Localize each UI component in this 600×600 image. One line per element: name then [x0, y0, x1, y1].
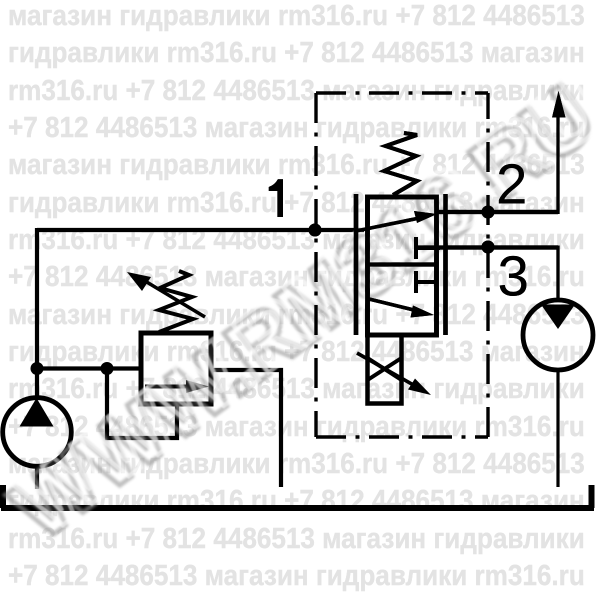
main valve U1 right outer bar (overlay)	[443, 194, 448, 335]
wire: horizontal to relief valve	[37, 366, 141, 370]
motor M1 triangle	[541, 305, 575, 330]
restrictor R1 adjustment arrow	[357, 353, 417, 387]
wire: line 1 horizontal	[37, 228, 364, 232]
main valve U1 left outer bar	[354, 194, 359, 335]
pump P1 triangle	[20, 398, 54, 427]
pump P1 circle	[3, 398, 72, 467]
main valve U1 closed port T upper (overlay)	[416, 237, 440, 259]
relief valve V1 internal arrow	[145, 385, 190, 389]
wire: relief valve outlet to tank	[211, 370, 281, 487]
relief valve V1 adjustment arrow	[140, 278, 205, 317]
main valve U1 closed port T lower (overlay)	[416, 271, 435, 293]
wire: port 2 line (overlay)	[437, 210, 558, 214]
wire: port 3 line (overlay)	[416, 245, 558, 249]
node: junction dot port 3 (overlay)	[482, 241, 495, 254]
main valve U1 body (overlay)	[368, 197, 437, 335]
node: junction dot port 2	[482, 206, 495, 219]
node: junction dot pilot tap	[101, 362, 114, 375]
tiled watermark rows	[8, 0, 585, 33]
relief valve V1 spring	[159, 271, 193, 332]
main valve U1 section divider (overlay)	[366, 262, 437, 266]
wire: port 2 line	[437, 210, 558, 214]
main valve U1 top diagonal arrow (overlay)	[356, 218, 422, 232]
main valve U1 section divider	[366, 262, 437, 266]
wire: pump suction stub	[35, 466, 39, 489]
motor M1 circle	[523, 300, 593, 370]
node: junction dot port 2 (overlay)	[482, 206, 495, 219]
main valve U1 top diagonal arrow	[356, 218, 422, 232]
wire: port 3 line	[416, 245, 558, 249]
main valve U1 bottom diagonal arrow (overlay)	[369, 299, 420, 312]
arrow: port 2 flow up	[552, 91, 566, 118]
tank T1	[1, 485, 594, 508]
main valve U1 closed port T lower	[416, 271, 435, 293]
node: junction dot port 1 (overlay)	[309, 224, 322, 237]
label 1	[269, 179, 283, 217]
relief valve V1 body	[141, 333, 211, 404]
wire: motor return to tank	[556, 370, 559, 487]
node: junction dot port 3	[482, 241, 495, 254]
arrow: port 2 flow up (overlay)	[552, 91, 566, 118]
main valve U1 spring	[384, 133, 417, 195]
restrictor R1 body	[368, 335, 402, 404]
main valve U1 left outer bar (overlay)	[354, 194, 359, 335]
main valve U1 right outer bar	[443, 194, 448, 335]
dash-dot enclosure border	[316, 93, 488, 437]
node: junction dot pump riser	[31, 362, 44, 375]
label 1 (overlay)	[269, 179, 283, 217]
node: junction dot port 1	[309, 224, 322, 237]
main valve U1 bottom diagonal arrow	[369, 299, 420, 312]
main valve U1 closed port T upper	[416, 237, 440, 259]
wire: relief valve drain loop	[107, 368, 177, 438]
main valve U1 spring (overlay)	[384, 133, 417, 195]
restrictor R1 X cross	[368, 358, 402, 380]
wire: left riser from line1 corner to pump	[35, 228, 39, 398]
wire: port 2 riser (overlay)	[556, 110, 559, 214]
svg-text:3: 3	[498, 245, 529, 308]
main valve U1 body	[368, 197, 437, 335]
wire: port 2 riser	[556, 110, 559, 214]
svg-text:2: 2	[496, 153, 527, 216]
